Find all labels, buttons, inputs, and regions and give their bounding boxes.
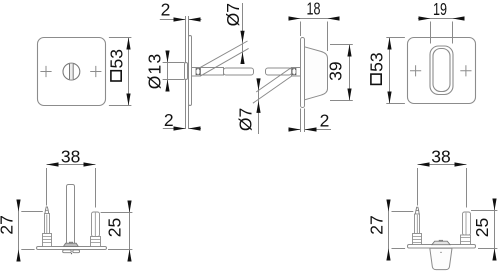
view3 dim 39 line xyxy=(349,45,351,101)
svg-text:Ø13: Ø13 xyxy=(144,53,164,90)
view6 left screw shaft line xyxy=(416,215,418,234)
svg-text:18: 18 xyxy=(307,0,321,18)
view2 dim 2 bottom line left xyxy=(163,128,186,130)
svg-text:Ø7: Ø7 xyxy=(223,3,243,26)
view5 thumbturn wing left xyxy=(63,250,71,253)
view3 cup body xyxy=(305,47,328,100)
view5 right post collar xyxy=(91,237,101,247)
view4 dim 19 arrow left xyxy=(419,16,431,20)
view3 dim 18 arrow left xyxy=(289,16,301,20)
view2 hub inner square xyxy=(196,69,200,75)
view3 dim 18 arrow right xyxy=(328,16,340,20)
view6 left screw shaft xyxy=(415,214,420,234)
view4 dim 19 line xyxy=(418,18,464,20)
view3 dim 18 extension left xyxy=(300,22,302,37)
svg-text:53: 53 xyxy=(366,52,386,71)
view6 dim 25 arrow bottom xyxy=(492,249,496,261)
svg-text:53: 53 xyxy=(106,49,126,68)
view6 hub bump xyxy=(432,241,450,245)
view3 oblique extension line upper xyxy=(256,67,291,92)
view5 thumbturn hub notch xyxy=(69,242,72,243)
view1 square rosette plate xyxy=(38,38,106,106)
view4 dim 53 extension bottom xyxy=(386,103,405,105)
view2 dim diameter7 arrow upper xyxy=(240,31,244,43)
view5 dim 38 extension left xyxy=(46,168,48,206)
view6 dim 38 extension left xyxy=(417,168,419,206)
view5 rosette plate xyxy=(37,247,107,250)
view6 cup center dot xyxy=(440,251,441,253)
view6 dim 38 arrow left xyxy=(418,162,430,166)
view5 left screw shaft line xyxy=(46,215,48,234)
view5 dim 38 arrow right xyxy=(84,162,96,166)
view2 dim diameter13 arrow bottom xyxy=(165,80,169,92)
view2 oblique extension line lower xyxy=(200,48,248,76)
view4 dim 53 extension top xyxy=(386,37,405,39)
view4 oblong ring outer xyxy=(430,46,453,95)
view5 left screw collar rings xyxy=(43,237,52,243)
svg-text:2: 2 xyxy=(164,110,174,130)
view5 dim 25 arrow bottom xyxy=(127,250,131,262)
view6 right post line xyxy=(465,213,467,235)
view5 dim 27 line xyxy=(18,200,20,262)
view5 thumbturn center dot xyxy=(71,253,72,255)
view5 thumbturn wing right xyxy=(73,250,80,253)
view3 dim 2 extension right xyxy=(304,109,306,133)
view6 left screw collar xyxy=(413,234,422,245)
view6 dim 27 extension bottom xyxy=(392,248,406,250)
view3 oblique extension line lower xyxy=(253,76,292,103)
view2 dim 2 top arrow right xyxy=(189,17,201,21)
svg-text:2: 2 xyxy=(320,111,330,131)
view2 rosette plate edge xyxy=(189,36,192,106)
view5 dim 27 arrow top xyxy=(16,200,20,212)
view6 cup body xyxy=(430,248,452,269)
view4 dim label square53 xyxy=(366,52,386,84)
view3 dim diameter7 leader line xyxy=(258,79,260,135)
view3 dim 39 extension top xyxy=(330,44,353,46)
view2 oblique extension line upper xyxy=(200,41,247,67)
view5 dim 38 line xyxy=(47,164,96,166)
view6 dim 25 arrow top xyxy=(492,199,496,211)
svg-text:2: 2 xyxy=(161,0,171,20)
view2 dim diameter13 arrow top xyxy=(165,51,169,63)
view4 square rosette plate xyxy=(408,38,476,104)
view3 spindle hub xyxy=(292,68,301,77)
view1 dim 53 line xyxy=(128,38,130,106)
view3 dim 2 extension left xyxy=(300,109,302,133)
view2 hub corner dots xyxy=(196,69,200,74)
view1 right cross mark xyxy=(90,66,101,77)
view5 dim 38 arrow left xyxy=(47,162,59,166)
view2 dim diameter13 extension bottom xyxy=(163,79,185,81)
view6 dim 27 arrow bottom xyxy=(386,249,390,261)
view3 hub corner dots xyxy=(292,69,296,74)
view3 dim 2 line right xyxy=(305,129,332,131)
view2 extension line back face xyxy=(188,16,190,129)
view3 spindle xyxy=(266,68,292,75)
svg-text:38: 38 xyxy=(431,146,450,166)
view6 dim 27 line xyxy=(388,200,390,261)
view4 dim 53 arrow up xyxy=(387,38,391,50)
view4 dim 19 arrow right xyxy=(453,16,465,20)
view5 spindle xyxy=(67,185,75,247)
view1 dim label square53 xyxy=(106,49,126,81)
view2 dim 2 bottom arrow left xyxy=(174,126,186,130)
view5 left screw collar xyxy=(43,234,52,247)
view2 spindle hub xyxy=(192,68,201,77)
view4 dim 53 line xyxy=(389,38,391,104)
view4 dim 53 arrow down xyxy=(387,92,391,104)
view2 dim diameter13 extension top xyxy=(163,62,185,64)
view2 dim 2 top arrow left xyxy=(174,17,186,21)
view6 rosette plate xyxy=(408,245,476,249)
view6 left screw tip xyxy=(415,207,419,214)
view1 dim 53 extension line top xyxy=(109,37,131,39)
view5 dim 27 arrow bottom xyxy=(16,250,20,262)
view5 left screw tip xyxy=(45,207,49,214)
svg-text:25: 25 xyxy=(105,218,125,237)
view1 thumbturn circle xyxy=(63,63,80,80)
view4 left cross mark xyxy=(410,65,421,76)
view5 dim 38 extension right xyxy=(95,168,97,208)
view2 dim 2 top line right xyxy=(189,19,202,21)
view3 dim diameter7 arrow upper xyxy=(256,78,260,90)
view5 dim 27 extension bottom xyxy=(21,249,34,251)
view3 dim 18 extension right xyxy=(327,22,329,52)
view1 dim 53 extension line bottom xyxy=(109,105,131,107)
view3 dim 39 extension bottom xyxy=(330,100,353,102)
view1 dim 53 arrow down xyxy=(126,94,130,106)
view6 right post collar xyxy=(461,235,471,245)
view3 rosette plate edge xyxy=(301,38,305,108)
view5 right post body xyxy=(92,212,100,237)
view1 dim 53 arrow up xyxy=(126,38,130,50)
view6 dim 25 line xyxy=(494,199,496,261)
svg-text:39: 39 xyxy=(326,61,346,80)
view6 right post collar rings xyxy=(461,238,471,242)
view6 dim 25 extension bottom xyxy=(478,248,497,250)
view4 dim 19 extension left xyxy=(430,22,432,44)
view6 dim 27 extension top xyxy=(392,211,414,213)
view5 right post collar rings xyxy=(91,240,101,243)
view4 dim 19 extension right xyxy=(452,22,454,44)
view5 right post line xyxy=(94,213,96,237)
view2 extension line front face xyxy=(185,16,187,129)
view2 dim diameter13 line xyxy=(167,51,169,92)
view6 dim 38 line xyxy=(418,164,467,166)
view5 dim 25 extension bottom xyxy=(108,249,132,251)
svg-text:38: 38 xyxy=(61,146,80,166)
svg-text:27: 27 xyxy=(367,215,387,234)
view2 dim 2 bottom arrow right xyxy=(189,126,201,130)
view6 left screw collar rings xyxy=(413,237,422,243)
view5 dim 25 line xyxy=(129,201,131,262)
view6 dim 38 extension right xyxy=(466,168,468,208)
view1 left cross mark xyxy=(40,66,51,77)
view4 oblong ring inner xyxy=(433,49,450,92)
svg-text:19: 19 xyxy=(433,0,447,19)
view5 dim 27 extension top xyxy=(21,211,43,213)
view3 dim 2 line left xyxy=(288,129,300,131)
view6 hub bump notch xyxy=(439,239,442,242)
view6 dim 27 arrow top xyxy=(386,200,390,212)
view3 dim 39 arrow down xyxy=(347,89,351,101)
view5 left screw shaft xyxy=(45,214,50,234)
view2 dim 2 bottom line right xyxy=(189,128,202,130)
view2 spindle left section xyxy=(201,68,224,76)
view1 thumbturn slot xyxy=(70,64,74,80)
view3 dim 39 arrow up xyxy=(347,45,351,57)
view6 dim 25 extension top xyxy=(471,210,497,212)
view2 spindle right section xyxy=(224,68,254,75)
view5 thumbturn hub xyxy=(64,243,79,246)
view2 dim diameter7 arrow lower xyxy=(240,52,244,64)
svg-text:27: 27 xyxy=(0,215,16,234)
view6 right post body xyxy=(463,212,471,235)
view3 dim 2 arrow left xyxy=(289,127,301,131)
view3 dim 18 line xyxy=(288,18,339,20)
view5 dim 25 arrow top xyxy=(127,201,131,213)
svg-text:Ø7: Ø7 xyxy=(236,108,256,131)
view6 dim 38 arrow right xyxy=(455,162,467,166)
view3 hub inner square xyxy=(292,69,296,75)
view4 right cross mark xyxy=(460,65,471,76)
svg-text:25: 25 xyxy=(472,218,492,237)
view2 dim diameter7 leader line xyxy=(242,3,244,64)
view5 dim 25 extension top xyxy=(101,212,133,214)
view2 thumbturn collar edge xyxy=(185,63,188,80)
view3 dim 2 arrow right xyxy=(305,127,317,131)
view3 dim diameter7 arrow lower xyxy=(256,101,260,113)
view2 dim 2 top line left xyxy=(160,19,186,21)
